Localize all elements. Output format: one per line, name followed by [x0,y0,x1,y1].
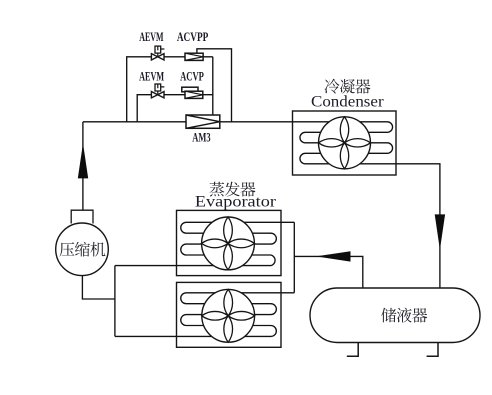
svg-text:ACVPP: ACVPP [177,30,209,44]
svg-text:AEVM: AEVM [139,70,164,84]
svg-text:AEVM: AEVM [139,30,164,44]
svg-text:Condenser: Condenser [311,94,384,111]
svg-text:ACVP: ACVP [180,70,204,84]
svg-text:Evaporator: Evaporator [195,193,277,210]
svg-text:AM3: AM3 [192,131,210,145]
